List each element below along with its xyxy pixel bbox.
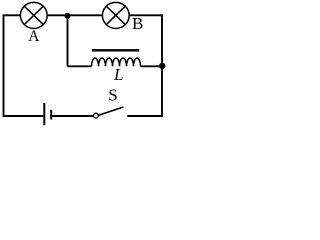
svg-text:L: L <box>113 65 123 84</box>
svg-text:B: B <box>132 14 143 33</box>
svg-text:S: S <box>108 86 117 105</box>
svg-text:A: A <box>28 28 40 45</box>
